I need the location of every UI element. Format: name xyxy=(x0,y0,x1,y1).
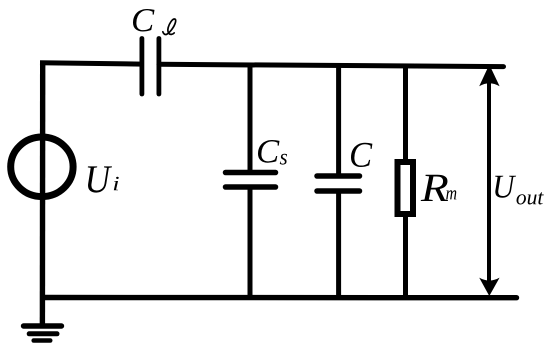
wire bottom horizontal xyxy=(43,295,517,301)
voltage source U_i label xyxy=(88,166,112,192)
wire R_m branch bottom xyxy=(403,214,408,298)
resistor R_m body xyxy=(398,162,414,214)
wire C branch top xyxy=(336,63,341,176)
U_out arrowhead bottom xyxy=(479,278,499,296)
wire C_s branch top xyxy=(248,63,253,173)
capacitor C_l right plate xyxy=(156,39,161,95)
wire top-left horizontal (source to C_l) xyxy=(40,63,142,64)
U_out measurement arrow line xyxy=(487,80,491,282)
capacitor C top plate xyxy=(317,173,360,179)
capacitor C label xyxy=(351,143,372,167)
ground bar 2 xyxy=(29,331,57,336)
U_out label xyxy=(495,176,516,198)
wire top horizontal (C_l to right end) xyxy=(159,64,504,66)
wire C branch bottom xyxy=(336,191,341,298)
ground bar 1 xyxy=(24,323,62,328)
wire left vertical (top corner down through source to ground) xyxy=(40,61,46,325)
wire R_m branch top xyxy=(403,64,408,162)
resistor R_m label xyxy=(421,175,448,201)
voltage source U_i circle xyxy=(11,137,73,197)
U_out arrowhead top xyxy=(479,65,499,87)
capacitor C_s top plate xyxy=(226,170,276,176)
wire C_s branch bottom xyxy=(248,187,253,298)
ground bar 3 xyxy=(34,338,51,343)
capacitor C bottom plate xyxy=(317,188,360,194)
capacitor C_s bottom plate xyxy=(226,184,276,190)
capacitor C_l label xyxy=(133,9,155,32)
capacitor C_s label xyxy=(258,140,280,163)
capacitor C_l left plate xyxy=(139,39,144,95)
